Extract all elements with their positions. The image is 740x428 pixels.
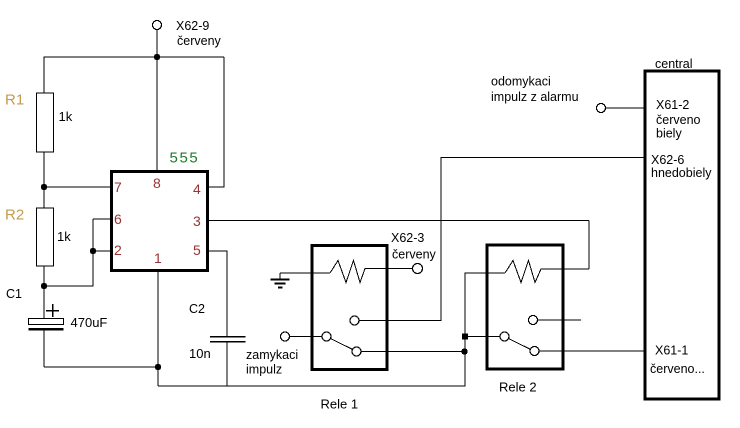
resistor R1 <box>37 93 54 152</box>
wire R2 bottom to C1 <box>43 266 45 319</box>
ground <box>271 273 290 288</box>
svg-text:8: 8 <box>153 175 161 191</box>
svg-text:biely: biely <box>656 127 682 141</box>
label Rele 2 <box>499 380 537 395</box>
wire pin 1 down <box>157 271 159 386</box>
label 1k of R2 <box>57 229 71 244</box>
label central <box>655 57 693 71</box>
svg-text:1k: 1k <box>59 109 73 124</box>
relay Rele1 common contact <box>322 332 331 341</box>
terminal X62-3 <box>413 264 423 274</box>
wire R1 bottom to R2 top <box>43 152 45 208</box>
relay Rele2 common contact <box>500 332 509 341</box>
svg-text:X62-9: X62-9 <box>176 19 209 33</box>
label cerveno <box>656 113 701 127</box>
relay Rele 2 box <box>487 245 563 369</box>
junction lower contact rail <box>461 348 467 354</box>
label C1 <box>6 287 22 301</box>
op-amp U1 555 timer body <box>112 172 208 271</box>
wire Rele2 coil to pin3 <box>588 221 590 270</box>
pin 3 number <box>193 213 201 229</box>
capacitor C1 <box>29 319 64 331</box>
wire VCC vertical to pin 8 <box>156 30 158 173</box>
svg-text:červeno...: červeno... <box>650 362 705 376</box>
label impulz z alarmu <box>491 90 579 104</box>
wire pin 7 <box>44 186 112 188</box>
svg-text:10n: 10n <box>189 346 211 361</box>
label R1 <box>5 92 24 109</box>
pin 2 number <box>114 242 122 258</box>
relay Rele2 armature <box>509 339 530 350</box>
svg-text:impulz: impulz <box>246 363 282 377</box>
wire zamykaci to common <box>290 336 323 338</box>
wire pin 6 <box>93 218 112 220</box>
svg-text:4: 4 <box>193 181 201 197</box>
wire C1 to ground rail <box>44 366 158 368</box>
wire pin 2 <box>93 250 112 252</box>
pin 4 number <box>193 181 201 197</box>
svg-text:Rele 2: Rele 2 <box>499 380 537 395</box>
svg-text:C1: C1 <box>6 287 22 301</box>
wire C1 bottom <box>43 331 45 368</box>
relay Rele1 upper contact <box>350 316 359 325</box>
relay Rele1 armature <box>331 339 352 350</box>
wire rail to Rele2 coil <box>465 272 506 274</box>
label cerveny X62-3 <box>392 248 437 262</box>
svg-text:Rele 1: Rele 1 <box>321 397 359 412</box>
wire to R1 top <box>43 57 45 94</box>
pin 6 number <box>114 211 122 227</box>
central box <box>645 71 719 399</box>
svg-text:impulz z alarmu: impulz z alarmu <box>491 90 579 104</box>
relay Rele 1 box <box>312 246 387 370</box>
wire ground to Rele1 coil <box>280 272 330 274</box>
junction pin2 tap <box>90 248 96 254</box>
pin 7 number <box>114 179 122 195</box>
wire Rele1 upper contact to X62-6 <box>359 158 645 321</box>
svg-text:červeny: červeny <box>392 248 437 262</box>
svg-text:zamykaci: zamykaci <box>246 348 298 362</box>
svg-text:central: central <box>655 57 693 71</box>
relay Rele1 lower contact <box>352 347 361 356</box>
svg-text:hnedobiely: hnedobiely <box>651 166 712 180</box>
wire bottom ground rail <box>158 273 465 386</box>
label odomykaci <box>491 75 551 89</box>
svg-text:R1: R1 <box>5 92 24 109</box>
wire pin 3 output <box>208 220 589 222</box>
svg-text:2: 2 <box>114 242 122 258</box>
label X62-6 <box>651 153 684 167</box>
capacitor C2 <box>210 336 246 343</box>
relay Rele2 coil <box>505 261 589 283</box>
label C2 <box>189 302 205 316</box>
label X62-3 <box>391 231 424 245</box>
relay Rele1 coil <box>330 261 413 283</box>
label 10n <box>189 346 211 361</box>
relay Rele2 upper contact <box>529 316 538 325</box>
svg-text:červeno: červeno <box>656 113 701 127</box>
svg-text:X62-3: X62-3 <box>391 231 424 245</box>
label R2 <box>5 207 24 224</box>
wire pin 4 <box>208 57 224 187</box>
svg-text:6: 6 <box>114 211 122 227</box>
label 1k of R1 <box>59 109 73 124</box>
svg-text:X61-1: X61-1 <box>655 344 688 358</box>
terminal odomykaci <box>597 104 606 113</box>
junction node C1 top <box>41 283 47 289</box>
label cerveno dots <box>650 362 705 376</box>
resistor R2 <box>37 208 54 266</box>
label 470uF <box>71 315 108 330</box>
wire threshold branch <box>44 219 93 286</box>
svg-text:R2: R2 <box>5 207 24 224</box>
junction Rele2 common tap <box>462 334 468 340</box>
svg-text:470uF: 470uF <box>71 315 108 330</box>
label cerveny top <box>177 34 222 48</box>
wire to Rele2 common <box>465 336 500 338</box>
junction node pin7 <box>41 184 47 190</box>
wire pin 5 to C2 <box>208 251 227 336</box>
svg-text:C2: C2 <box>189 302 205 316</box>
wire Rele1 lower contact to rail <box>361 351 465 353</box>
label hnedobiely <box>651 166 712 180</box>
svg-text:odomykaci: odomykaci <box>491 75 551 89</box>
svg-text:1k: 1k <box>57 229 71 244</box>
svg-text:X62-6: X62-6 <box>651 153 684 167</box>
terminal X62-9 <box>153 21 162 30</box>
svg-text:555: 555 <box>170 150 200 167</box>
label Rele 1 <box>321 397 359 412</box>
capacitor C1 plus sign <box>46 304 59 317</box>
wire Rele2 lower contact to X61-1 <box>539 350 645 352</box>
label biely <box>656 127 682 141</box>
pin 5 number <box>193 242 201 258</box>
label X62-9 <box>176 19 209 33</box>
junction VCC node <box>154 54 160 60</box>
label 555 <box>170 150 200 167</box>
svg-text:3: 3 <box>193 213 201 229</box>
svg-text:1: 1 <box>154 250 162 266</box>
svg-text:červeny: červeny <box>177 34 222 48</box>
svg-text:7: 7 <box>114 179 122 195</box>
label impulz <box>246 363 282 377</box>
label zamykaci <box>246 348 298 362</box>
terminal zamykaci <box>281 332 290 341</box>
svg-text:5: 5 <box>193 242 201 258</box>
wire odomykaci to central <box>606 107 646 109</box>
junction pin1 ground rail <box>155 364 161 370</box>
label X61-1 <box>655 344 688 358</box>
pin 8 number <box>153 175 161 191</box>
svg-text:X61-2: X61-2 <box>656 98 689 112</box>
wire C2 bottom to rail <box>226 342 228 386</box>
wire Rele2 upper contact stub <box>538 319 582 321</box>
wire VCC horizontal rail <box>44 56 224 58</box>
label X61-2 <box>656 98 689 112</box>
relay Rele2 lower contact <box>530 347 539 356</box>
pin 1 number <box>154 250 162 266</box>
